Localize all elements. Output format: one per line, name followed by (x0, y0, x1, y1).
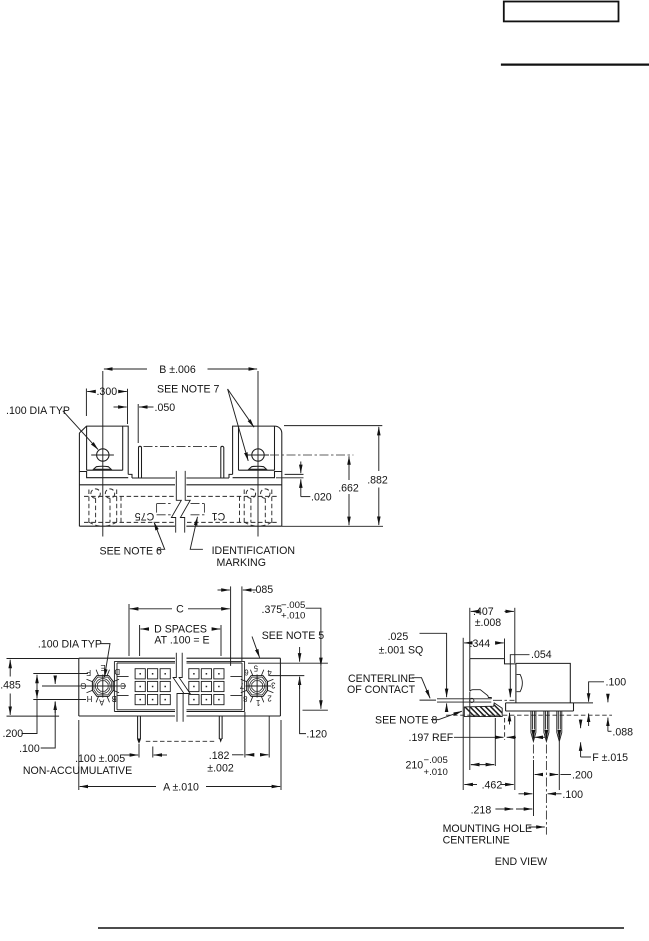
left weld dome (94, 466, 112, 469)
svg-text:.100 DIA TYP: .100 DIA TYP (6, 405, 70, 417)
left mounting bracket (79, 426, 128, 474)
svg-text:.218: .218 (471, 804, 492, 816)
svg-text:F ±.015: F ±.015 (592, 752, 628, 764)
svg-text:.300: .300 (96, 386, 117, 398)
svg-text:.100 DIA TYP: .100 DIA TYP (38, 639, 102, 651)
dim .200 (535, 774, 542, 776)
svg-text:B ±.006: B ±.006 (159, 364, 196, 376)
svg-text:.200: .200 (3, 728, 24, 740)
svg-text:.088: .088 (612, 726, 633, 738)
dim C (128, 604, 130, 656)
svg-text:−.005: −.005 (424, 755, 448, 766)
break lines (171, 471, 181, 533)
svg-text:.120: .120 (306, 728, 327, 740)
svg-text:.197 REF: .197 REF (409, 732, 454, 744)
raised contact section outer (114, 661, 244, 711)
svg-text:SEE NOTE 8: SEE NOTE 8 (375, 714, 438, 726)
body main rect (516, 663, 570, 703)
dim .300 (85, 389, 87, 417)
svg-text:AT .100 = E: AT .100 = E (154, 635, 209, 647)
pin 2 (544, 711, 549, 741)
svg-text:±.008: ±.008 (475, 617, 502, 629)
raised contact section inner (117, 663, 242, 710)
contact blade (437, 699, 491, 702)
right bracket pocket (239, 426, 275, 470)
svg-text:A ±.010: A ±.010 (163, 781, 199, 793)
pin1 centerline (532, 745, 534, 761)
left guide pin (139, 446, 142, 478)
svg-text:7: 7 (240, 681, 244, 690)
base slab (506, 703, 574, 711)
pin 3 (557, 711, 562, 741)
pin 1 (531, 711, 536, 741)
right hole centerline (257, 371, 259, 537)
svg-text:.375: .375 (262, 604, 283, 616)
hidden band dashed (84, 496, 277, 522)
svg-text:.054: .054 (531, 649, 552, 661)
dim .200 (36, 675, 38, 690)
dim B +-.006 (104, 368, 147, 370)
svg-text:.882: .882 (367, 474, 388, 486)
svg-text:.020: .020 (311, 491, 332, 503)
svg-text:±.002: ±.002 (207, 762, 234, 774)
dim .182 +-.002 (244, 712, 246, 758)
svg-text:.662: .662 (338, 482, 359, 494)
dim .662 (270, 454, 353, 456)
svg-text:.025: .025 (388, 631, 409, 643)
svg-text:1: 1 (256, 698, 260, 707)
svg-text:.344: .344 (470, 638, 491, 650)
dim A +-.010 (78, 720, 80, 790)
svg-text:.050: .050 (155, 402, 176, 414)
dim .100 +-.005 (138, 744, 140, 758)
ext verticals top (469, 608, 471, 658)
svg-text:OF CONTACT: OF CONTACT (347, 684, 416, 696)
svg-text:D: D (114, 667, 120, 676)
dim .485 (7, 658, 79, 660)
right mounting bracket (233, 426, 282, 474)
svg-text:+.010: +.010 (424, 767, 448, 778)
latch bump on body left (517, 674, 523, 691)
left keying octagon (87, 670, 120, 703)
svg-text:C1: C1 (212, 510, 226, 522)
contact retention profile (470, 690, 492, 699)
svg-text:NON-ACCUMULATIVE: NON-ACCUMULATIVE (23, 765, 132, 777)
svg-text:E: E (100, 663, 105, 672)
right hole circle (252, 449, 264, 461)
dim .085 (230, 586, 232, 666)
svg-text:SEE NOTE 6: SEE NOTE 6 (100, 546, 163, 558)
svg-text:IDENTIFICATION: IDENTIFICATION (212, 545, 295, 557)
contact grid (135, 669, 224, 705)
svg-text:.100 ±.005: .100 ±.005 (75, 753, 125, 765)
dim .120 (299, 647, 301, 662)
svg-text:6: 6 (244, 667, 248, 676)
hatched wafer block (464, 703, 502, 717)
ext verticals bottom (462, 719, 464, 791)
identification marking box dash-dot (157, 504, 205, 515)
svg-text:.100: .100 (19, 743, 40, 755)
svg-text:C: C (176, 604, 184, 616)
left pin below (138, 716, 141, 743)
svg-text:.485: .485 (0, 680, 21, 692)
svg-text:+.010: +.010 (281, 611, 305, 622)
dim F +-.015 (580, 720, 582, 729)
left bracket base lines (79, 472, 132, 479)
pin3 extension (558, 742, 560, 790)
body bottom line (79, 525, 281, 527)
svg-text:.200: .200 (572, 769, 593, 781)
svg-text:.085: .085 (253, 584, 274, 596)
mounting hole centerline dashed (545, 745, 547, 835)
svg-text:END VIEW: END VIEW (495, 856, 547, 868)
row centerlines left (33, 674, 126, 700)
left hole centerline (102, 371, 104, 537)
dim D SPACES AT .100 = E (139, 625, 141, 656)
svg-text:.100: .100 (562, 789, 583, 801)
right keying octagon (241, 670, 274, 703)
mating rim (470, 659, 516, 692)
footer rule (98, 927, 624, 929)
left standoff hidden (89, 490, 117, 527)
left hole circle (97, 449, 109, 461)
header rule (501, 63, 649, 65)
row centerline right stub (268, 676, 304, 686)
svg-text:F: F (86, 668, 91, 677)
svg-text:B: B (111, 694, 116, 703)
dim .088 (607, 695, 609, 703)
svg-text:A: A (98, 697, 104, 706)
svg-text:SEE NOTE 5: SEE NOTE 5 (262, 630, 325, 642)
svg-text:CENTERLINE: CENTERLINE (443, 834, 510, 846)
svg-text:.100: .100 (606, 677, 627, 689)
right pin below (219, 716, 222, 739)
dim .020 (285, 473, 304, 475)
svg-text:C75: C75 (135, 510, 155, 522)
dim .050 (137, 404, 139, 443)
body top line (79, 484, 281, 486)
svg-text:H: H (87, 694, 93, 703)
svg-text:G: G (80, 681, 86, 690)
right bracket base lines (229, 472, 282, 479)
seat line between brackets (132, 477, 229, 479)
svg-text:210: 210 (406, 760, 424, 772)
pocket ledge ticks (117, 677, 242, 696)
svg-text:.407: .407 (473, 606, 494, 618)
svg-text:±.001 SQ: ±.001 SQ (379, 645, 424, 657)
right guide pin (221, 446, 224, 478)
right weld dome (249, 466, 267, 469)
svg-text:−.005: −.005 (281, 600, 305, 611)
svg-text:.462: .462 (482, 779, 503, 791)
svg-text:MOUNTING HOLE: MOUNTING HOLE (443, 823, 532, 835)
svg-text:CENTERLINE: CENTERLINE (348, 673, 415, 685)
svg-text:C: C (120, 681, 126, 690)
right standoff hidden (244, 490, 272, 527)
svg-text:SEE NOTE 7: SEE NOTE 7 (157, 384, 220, 396)
body sides (79, 472, 281, 527)
svg-text:5: 5 (253, 663, 258, 672)
svg-text:8: 8 (243, 694, 247, 703)
dim .882 (284, 425, 382, 427)
svg-text:2: 2 (267, 693, 271, 702)
title block box (504, 2, 619, 22)
keying letters left octagon (80, 663, 275, 707)
dim .100 bottom (519, 793, 533, 795)
dim .100 (54, 676, 56, 684)
svg-text:MARKING: MARKING (217, 557, 266, 569)
pin tip dash line (146, 740, 217, 742)
arrow at slab bottom left (509, 713, 511, 725)
left bracket pocket (87, 426, 123, 470)
mating face centerline (144, 445, 218, 447)
break lines (173, 653, 184, 722)
svg-text:.182: .182 (209, 750, 230, 762)
svg-text:3: 3 (271, 680, 275, 689)
pcb surface dashed (446, 714, 612, 716)
body outline (79, 658, 281, 716)
contact centerline (420, 699, 437, 701)
